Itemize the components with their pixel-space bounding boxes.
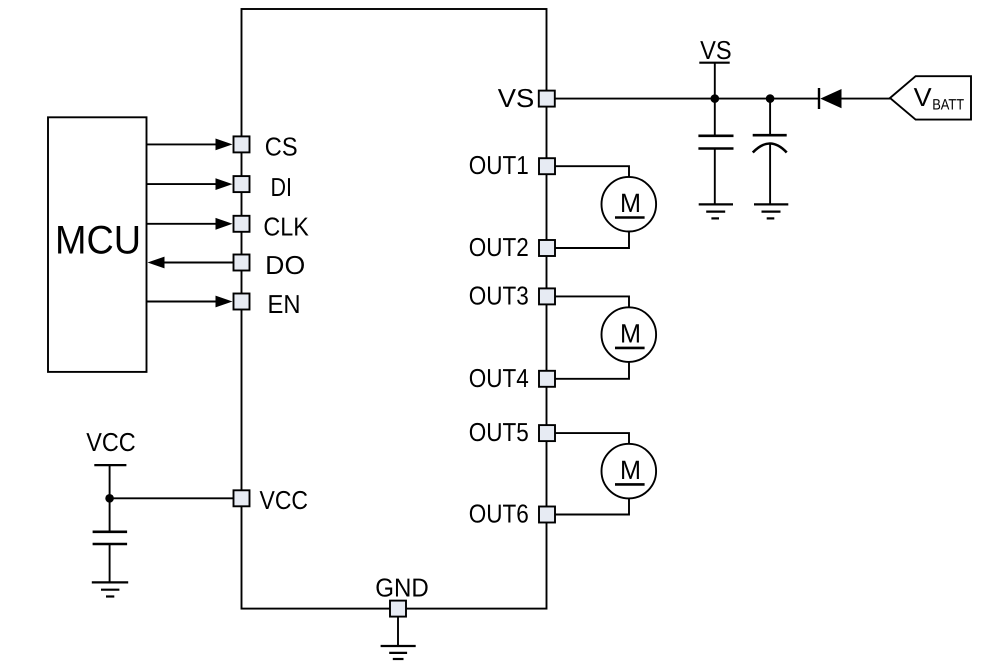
capacitor C2 top plate — [753, 134, 787, 137]
diode D1 cathode bar — [818, 88, 820, 109]
capacitor C3 bottom plate — [93, 543, 128, 546]
pin OUT4 — [539, 371, 555, 387]
svg-text:GND: GND — [375, 572, 429, 602]
wire MCU to CLK — [147, 223, 219, 225]
wire OUT3 to motor M2 — [555, 296, 629, 307]
svg-text:OUT5: OUT5 — [469, 417, 529, 447]
svg-text:DO: DO — [265, 250, 305, 280]
svg-text:DI: DI — [271, 172, 293, 202]
IC U1 body — [242, 9, 547, 609]
motor M3 circle — [602, 444, 657, 499]
wire VS supply to node — [714, 63, 716, 99]
ground below C2 — [754, 204, 788, 218]
wire diode anode to VBATT tag — [842, 98, 891, 100]
pin EN — [234, 294, 250, 310]
arrowhead into CLK — [216, 218, 233, 230]
motor M1 circle — [602, 177, 657, 232]
svg-text:VS: VS — [700, 35, 732, 65]
svg-text:OUT4: OUT4 — [469, 363, 529, 393]
wire motor M1 to OUT2 — [555, 232, 629, 248]
wire capacitor C3 to ground — [109, 545, 111, 582]
svg-text:VCC: VCC — [260, 485, 309, 515]
capacitor C1 bottom plate — [698, 147, 733, 150]
pin CLK — [234, 216, 250, 232]
ground below C1 — [699, 204, 733, 218]
wire node to capacitor C3 — [109, 498, 111, 531]
wire VCC supply to node — [109, 465, 111, 498]
capacitor C2 curved plate — [753, 144, 787, 153]
wire node to VCC pin — [110, 497, 234, 499]
wire DO to MCU — [161, 262, 233, 264]
arrowhead into DI — [216, 178, 233, 190]
svg-text:OUT3: OUT3 — [469, 280, 529, 310]
wire OUT5 to motor M3 — [555, 433, 629, 444]
svg-text:OUT2: OUT2 — [469, 232, 529, 262]
svg-text:OUT6: OUT6 — [469, 499, 529, 529]
svg-text:CLK: CLK — [263, 211, 309, 241]
arrowhead into CS — [216, 139, 233, 151]
node junction C2 — [766, 94, 775, 103]
pin DO — [234, 255, 250, 271]
arrowhead into EN — [216, 296, 233, 308]
svg-text:OUT1: OUT1 — [469, 150, 529, 180]
svg-text:CS: CS — [265, 132, 298, 162]
svg-text:VCC: VCC — [86, 427, 136, 457]
wire motor M2 to OUT4 — [555, 362, 629, 379]
ground below GND pin — [381, 646, 416, 659]
svg-text:EN: EN — [268, 289, 301, 319]
pin OUT1 — [539, 158, 555, 174]
VBATT tag outline — [890, 76, 971, 119]
VS supply symbol bar — [699, 62, 729, 64]
pin CS — [234, 136, 250, 152]
ground below C3 — [92, 582, 128, 596]
node junction C1 — [711, 94, 720, 103]
svg-text:M: M — [620, 318, 641, 348]
pin OUT5 — [539, 425, 555, 441]
wire MCU to DI — [147, 183, 219, 185]
wire OUT1 to motor M1 — [555, 166, 629, 177]
pin OUT3 — [539, 288, 555, 304]
wire GND pin to ground — [397, 617, 399, 646]
MCU block — [48, 117, 147, 372]
wire motor M3 to OUT6 — [555, 499, 629, 515]
capacitor C1 top plate — [698, 135, 733, 138]
svg-text:VS: VS — [498, 83, 535, 113]
svg-text:M: M — [620, 455, 641, 485]
svg-text:BATT: BATT — [932, 96, 964, 113]
pin OUT2 — [539, 240, 555, 256]
wire VS pin to diode cathode — [555, 98, 819, 100]
wire capacitor C2 to ground — [769, 144, 771, 205]
motor M1 underline — [615, 216, 645, 219]
motor M2 underline — [615, 347, 645, 350]
svg-text:MCU: MCU — [55, 218, 141, 262]
pin VS — [539, 91, 555, 107]
wire node to capacitor C1 — [714, 99, 716, 136]
svg-text:M: M — [620, 188, 641, 218]
VCC supply symbol bar — [94, 464, 126, 466]
capacitor C3 top plate — [93, 530, 128, 533]
arrowhead into MCU from DO — [148, 257, 165, 269]
diode D1 triangle — [820, 89, 841, 108]
motor M3 underline — [615, 483, 645, 486]
wire capacitor C1 to ground — [714, 150, 716, 205]
pin DI — [234, 176, 250, 192]
pin OUT6 — [539, 507, 555, 523]
motor M2 circle — [602, 307, 657, 362]
node VCC junction — [105, 494, 114, 503]
pin GND — [390, 601, 406, 617]
wire MCU to CS — [147, 143, 219, 145]
wire node to capacitor C2 — [769, 99, 771, 135]
pin VCC — [234, 490, 250, 506]
svg-text:V: V — [914, 82, 933, 112]
wire MCU to EN — [147, 301, 219, 303]
